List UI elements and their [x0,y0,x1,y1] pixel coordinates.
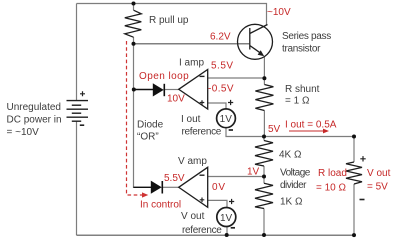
svg-text:Unregulated: Unregulated [7,102,61,113]
svg-text:0V: 0V [212,182,226,193]
svg-text:R shunt: R shunt [285,84,320,95]
svg-text:= 1 Ω: = 1 Ω [285,95,310,106]
svg-text:1V: 1V [220,114,233,125]
svg-text:I amp: I amp [179,58,204,69]
svg-text:“OR”: “OR” [137,132,159,143]
svg-text:1K Ω: 1K Ω [280,196,303,207]
svg-text:V amp: V amp [178,156,207,167]
svg-text:R pull up: R pull up [149,15,189,26]
svg-text:Voltage: Voltage [280,168,311,179]
svg-text:In control: In control [140,199,181,210]
svg-text:1V: 1V [247,166,260,177]
svg-text:DC power in: DC power in [7,115,62,126]
svg-text:10V: 10V [167,94,185,105]
svg-text:V out: V out [181,211,205,222]
svg-text:4K Ω: 4K Ω [279,150,302,161]
svg-text:5.5V: 5.5V [164,173,185,184]
svg-text:5.5V: 5.5V [211,61,234,72]
svg-text:divider: divider [280,180,307,191]
svg-text:5V: 5V [268,124,281,135]
svg-text:Series pass: Series pass [282,31,331,42]
svg-text:reference: reference [182,225,222,236]
svg-text:V out: V out [367,168,391,179]
svg-text:transistor: transistor [282,43,321,54]
svg-text:= 5V: = 5V [367,181,388,192]
svg-text:Diode: Diode [137,119,164,130]
svg-text:I out: I out [181,114,201,125]
svg-text:~10V: ~10V [267,7,291,18]
svg-text:I out = 0.5A: I out = 0.5A [285,119,337,130]
svg-text:R load: R load [318,168,347,179]
svg-text:Open loop: Open loop [139,71,189,82]
svg-text:= 10 Ω: = 10 Ω [316,182,347,193]
svg-text:reference: reference [182,126,222,137]
svg-text:1V: 1V [220,213,233,224]
svg-text:6.2V: 6.2V [210,32,231,43]
svg-text:= ~10V: = ~10V [7,127,40,138]
svg-text:-0.5V: -0.5V [208,84,234,95]
